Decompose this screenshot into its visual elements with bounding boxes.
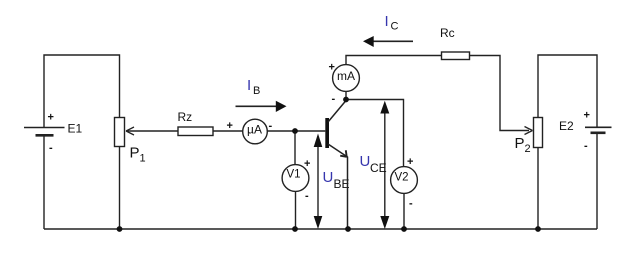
svg-text:µA: µA [247, 123, 262, 137]
svg-text:-: - [409, 198, 413, 210]
wire uA meter to transistor base [267, 130, 325, 132]
wire E2 bottom to rail [596, 133, 598, 229]
potentiometer P2 wiper arrowhead [525, 127, 533, 135]
wire E1 top to P1 top [44, 55, 120, 127]
wire collector node to V2 top [346, 100, 404, 167]
wire mA bottom to collector node [345, 92, 347, 100]
ammeter uA [243, 119, 268, 144]
wire E1 bottom to rail [43, 136, 45, 230]
svg-text:+: + [48, 112, 54, 124]
wire node to V1 top [294, 131, 296, 165]
battery E1 [24, 128, 65, 136]
voltmeter V1 [282, 165, 309, 192]
svg-text:U: U [323, 169, 334, 186]
svg-text:1: 1 [140, 153, 146, 165]
svg-text:+: + [329, 62, 335, 74]
milliammeter mA [333, 65, 360, 92]
wire V1 bottom to rail [295, 192, 297, 230]
svg-text:+: + [407, 156, 413, 168]
battery E2 [585, 127, 612, 133]
current arrow IB [236, 101, 287, 112]
svg-text:Rz: Rz [178, 110, 193, 124]
voltmeter V2 [391, 167, 418, 194]
svg-text:+: + [304, 158, 310, 170]
wire Rz to uA meter [213, 130, 243, 132]
wire P2 top to E2 top [538, 55, 597, 127]
potentiometer P1 [115, 118, 125, 147]
svg-text:-: - [305, 190, 309, 202]
node P1 rail (junction dot) [117, 226, 123, 232]
svg-text:B: B [253, 85, 260, 97]
node V2 rail (junction dot) [401, 226, 407, 232]
svg-text:V1: V1 [286, 168, 300, 180]
svg-text:-: - [269, 120, 273, 132]
wire Rc to P2 wiper [470, 56, 530, 131]
node collector (junction dot) [343, 97, 349, 103]
svg-text:I: I [247, 77, 251, 94]
wire V2 bottom to rail [403, 194, 405, 230]
svg-text:V2: V2 [394, 171, 408, 183]
svg-text:C: C [391, 21, 399, 33]
svg-text:P: P [130, 145, 140, 162]
node V1 rail (junction dot) [292, 226, 298, 232]
resistor Rc [442, 52, 470, 60]
transistor Q1 [325, 101, 347, 230]
wire P1 bottom to rail [119, 147, 121, 230]
svg-text:E1: E1 [68, 122, 83, 136]
wire mA top to Rc [346, 56, 442, 65]
resistor Rz [178, 127, 213, 136]
node P2 rail (junction dot) [535, 226, 541, 232]
svg-text:-: - [332, 93, 336, 105]
current arrow IC [363, 36, 413, 47]
svg-text:CE: CE [370, 161, 387, 175]
svg-text:2: 2 [525, 143, 531, 155]
svg-text:+: + [227, 120, 233, 132]
svg-text:Rc: Rc [440, 26, 455, 40]
potentiometer P1 wiper arrowhead [126, 127, 134, 135]
svg-text:-: - [584, 140, 588, 152]
potentiometer P2 [534, 118, 543, 148]
svg-text:-: - [49, 142, 53, 154]
wire P1 wiper to Rz [127, 130, 178, 132]
svg-text:I: I [385, 13, 389, 30]
voltage arrow UCE [380, 101, 389, 229]
svg-text:U: U [360, 153, 371, 170]
wire P2 bottom to rail [537, 148, 539, 230]
node base (junction dot) [292, 128, 298, 134]
voltage arrow UBE [314, 134, 323, 230]
wire bottom rail [44, 228, 597, 230]
svg-text:P: P [515, 135, 525, 152]
svg-text:mA: mA [337, 69, 355, 83]
svg-text:E2: E2 [559, 119, 574, 133]
svg-text:+: + [584, 110, 590, 122]
node emitter rail (junction dot) [345, 226, 351, 232]
